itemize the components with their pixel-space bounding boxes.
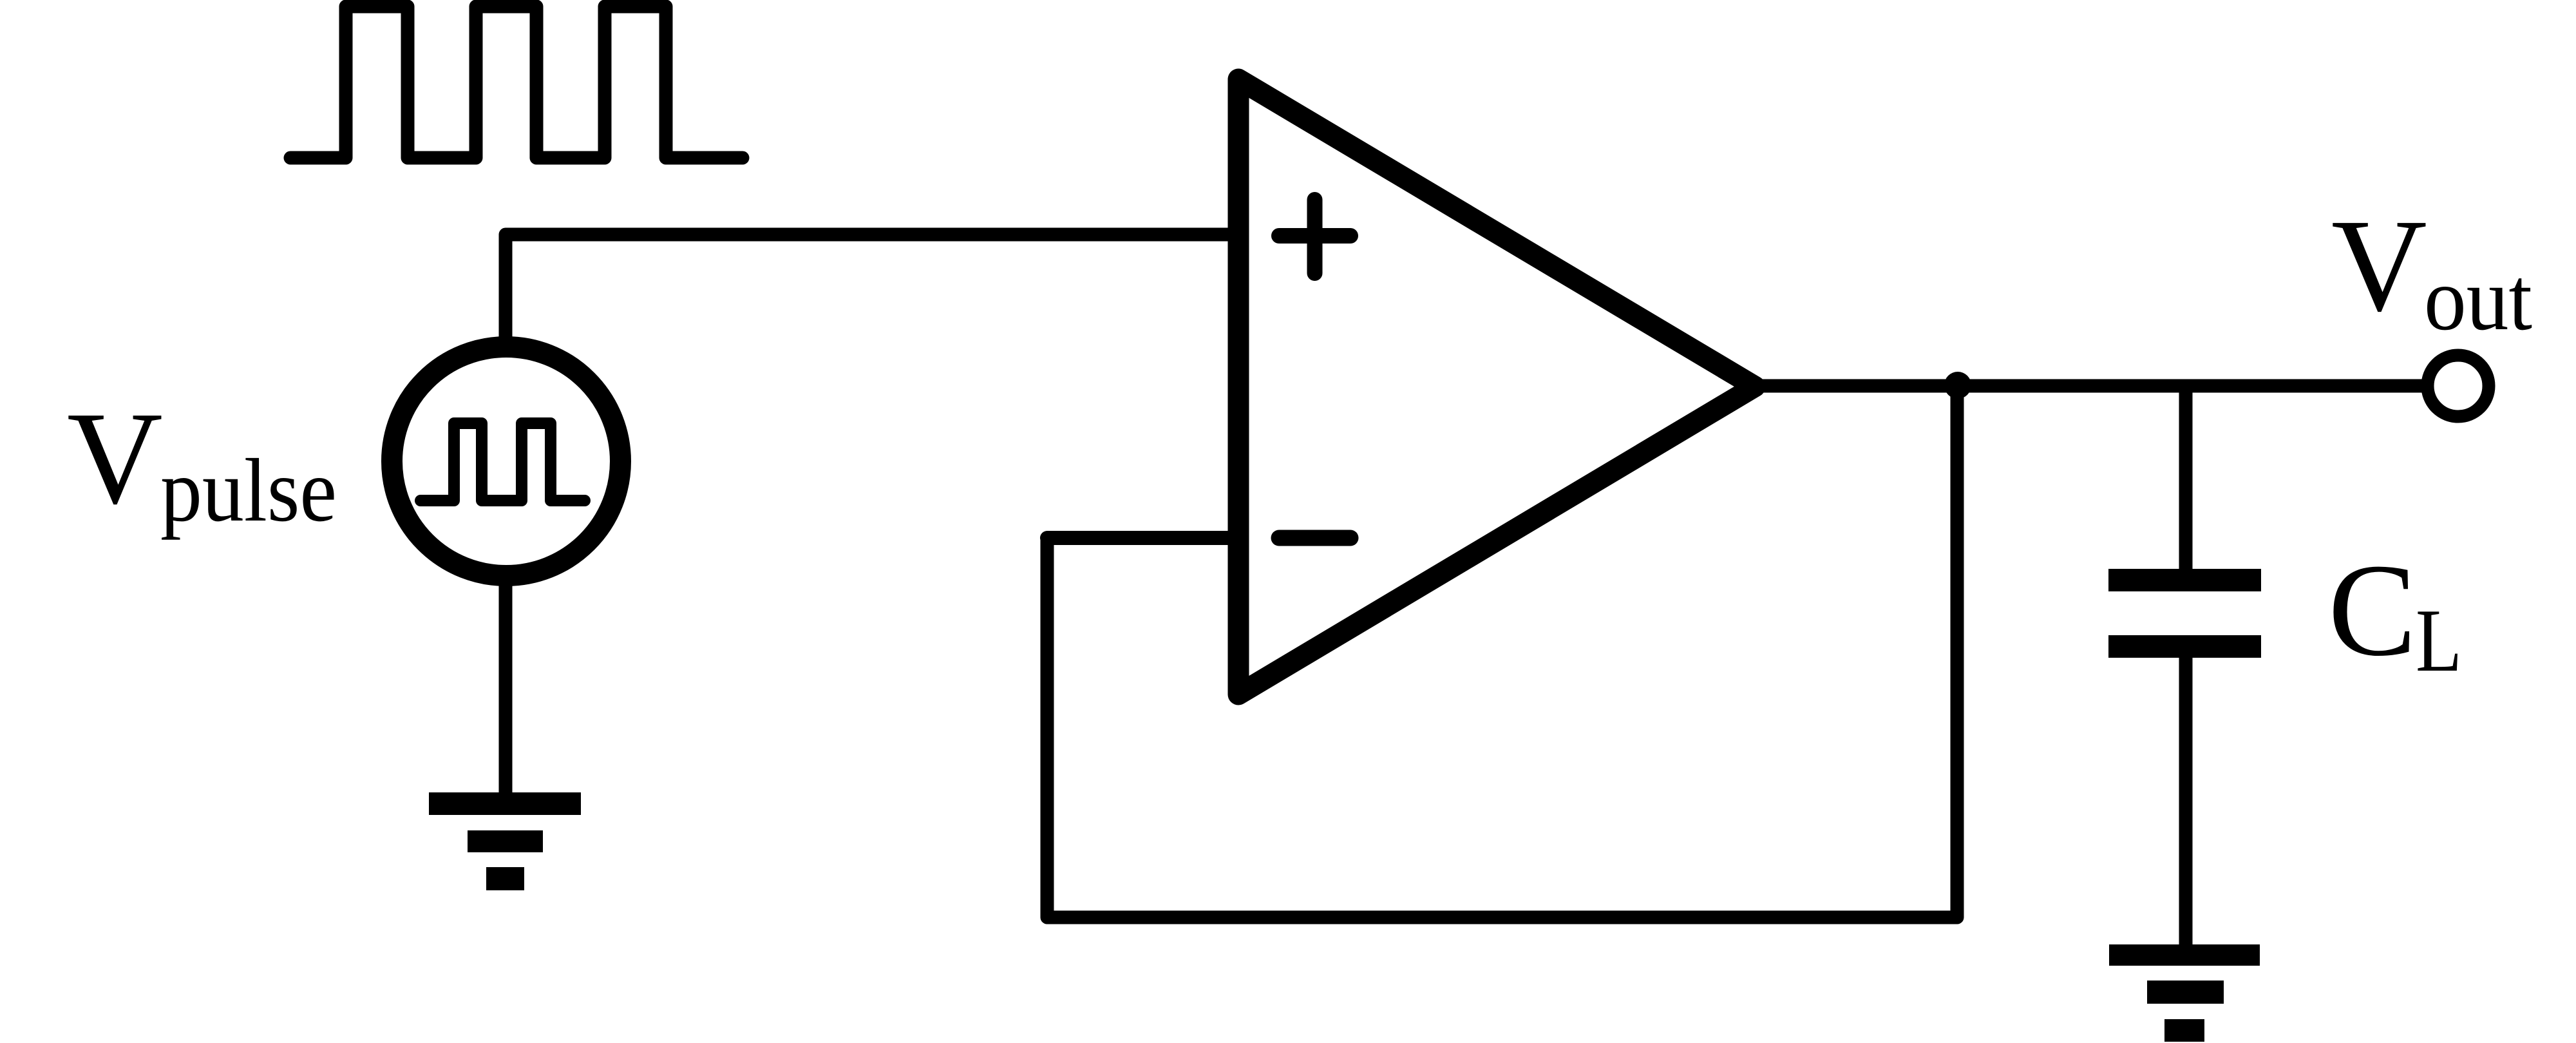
svg-text:pulse: pulse bbox=[160, 441, 337, 541]
wire input (source top to op-amp + input) bbox=[506, 234, 1238, 341]
op-amp U1 bbox=[1238, 79, 1755, 694]
ground (right, below capacitor) bbox=[2109, 944, 2260, 1042]
pulse waveform icon bbox=[290, 6, 743, 158]
wire (source bottom to ground) bbox=[499, 583, 513, 794]
svg-text:V: V bbox=[2331, 191, 2427, 339]
plus input label bbox=[1279, 200, 1350, 273]
source V1 pulse voltage source bbox=[392, 347, 621, 576]
mini pulse symbol inside source bbox=[421, 423, 585, 501]
wire (capacitor bottom lead) bbox=[2179, 658, 2193, 946]
wire (minus input) bbox=[1047, 531, 1238, 545]
node output junction bbox=[1944, 372, 1971, 399]
capacitor CL bbox=[2108, 569, 2261, 658]
ground (left, below source) bbox=[429, 792, 581, 890]
wire (capacitor top lead) bbox=[2179, 386, 2193, 569]
svg-text:V: V bbox=[67, 384, 163, 531]
label Vpulse bbox=[67, 384, 337, 541]
wire (output) bbox=[1755, 379, 2421, 393]
svg-text:out: out bbox=[2424, 249, 2532, 349]
minus input label bbox=[1279, 530, 1350, 546]
svg-text:C: C bbox=[2328, 536, 2416, 684]
svg-text:L: L bbox=[2416, 591, 2462, 691]
terminal Vout bbox=[2428, 356, 2489, 417]
label Vout bbox=[2331, 191, 2532, 349]
label CL bbox=[2328, 536, 2462, 691]
wire (feedback loop) bbox=[1047, 387, 1957, 917]
